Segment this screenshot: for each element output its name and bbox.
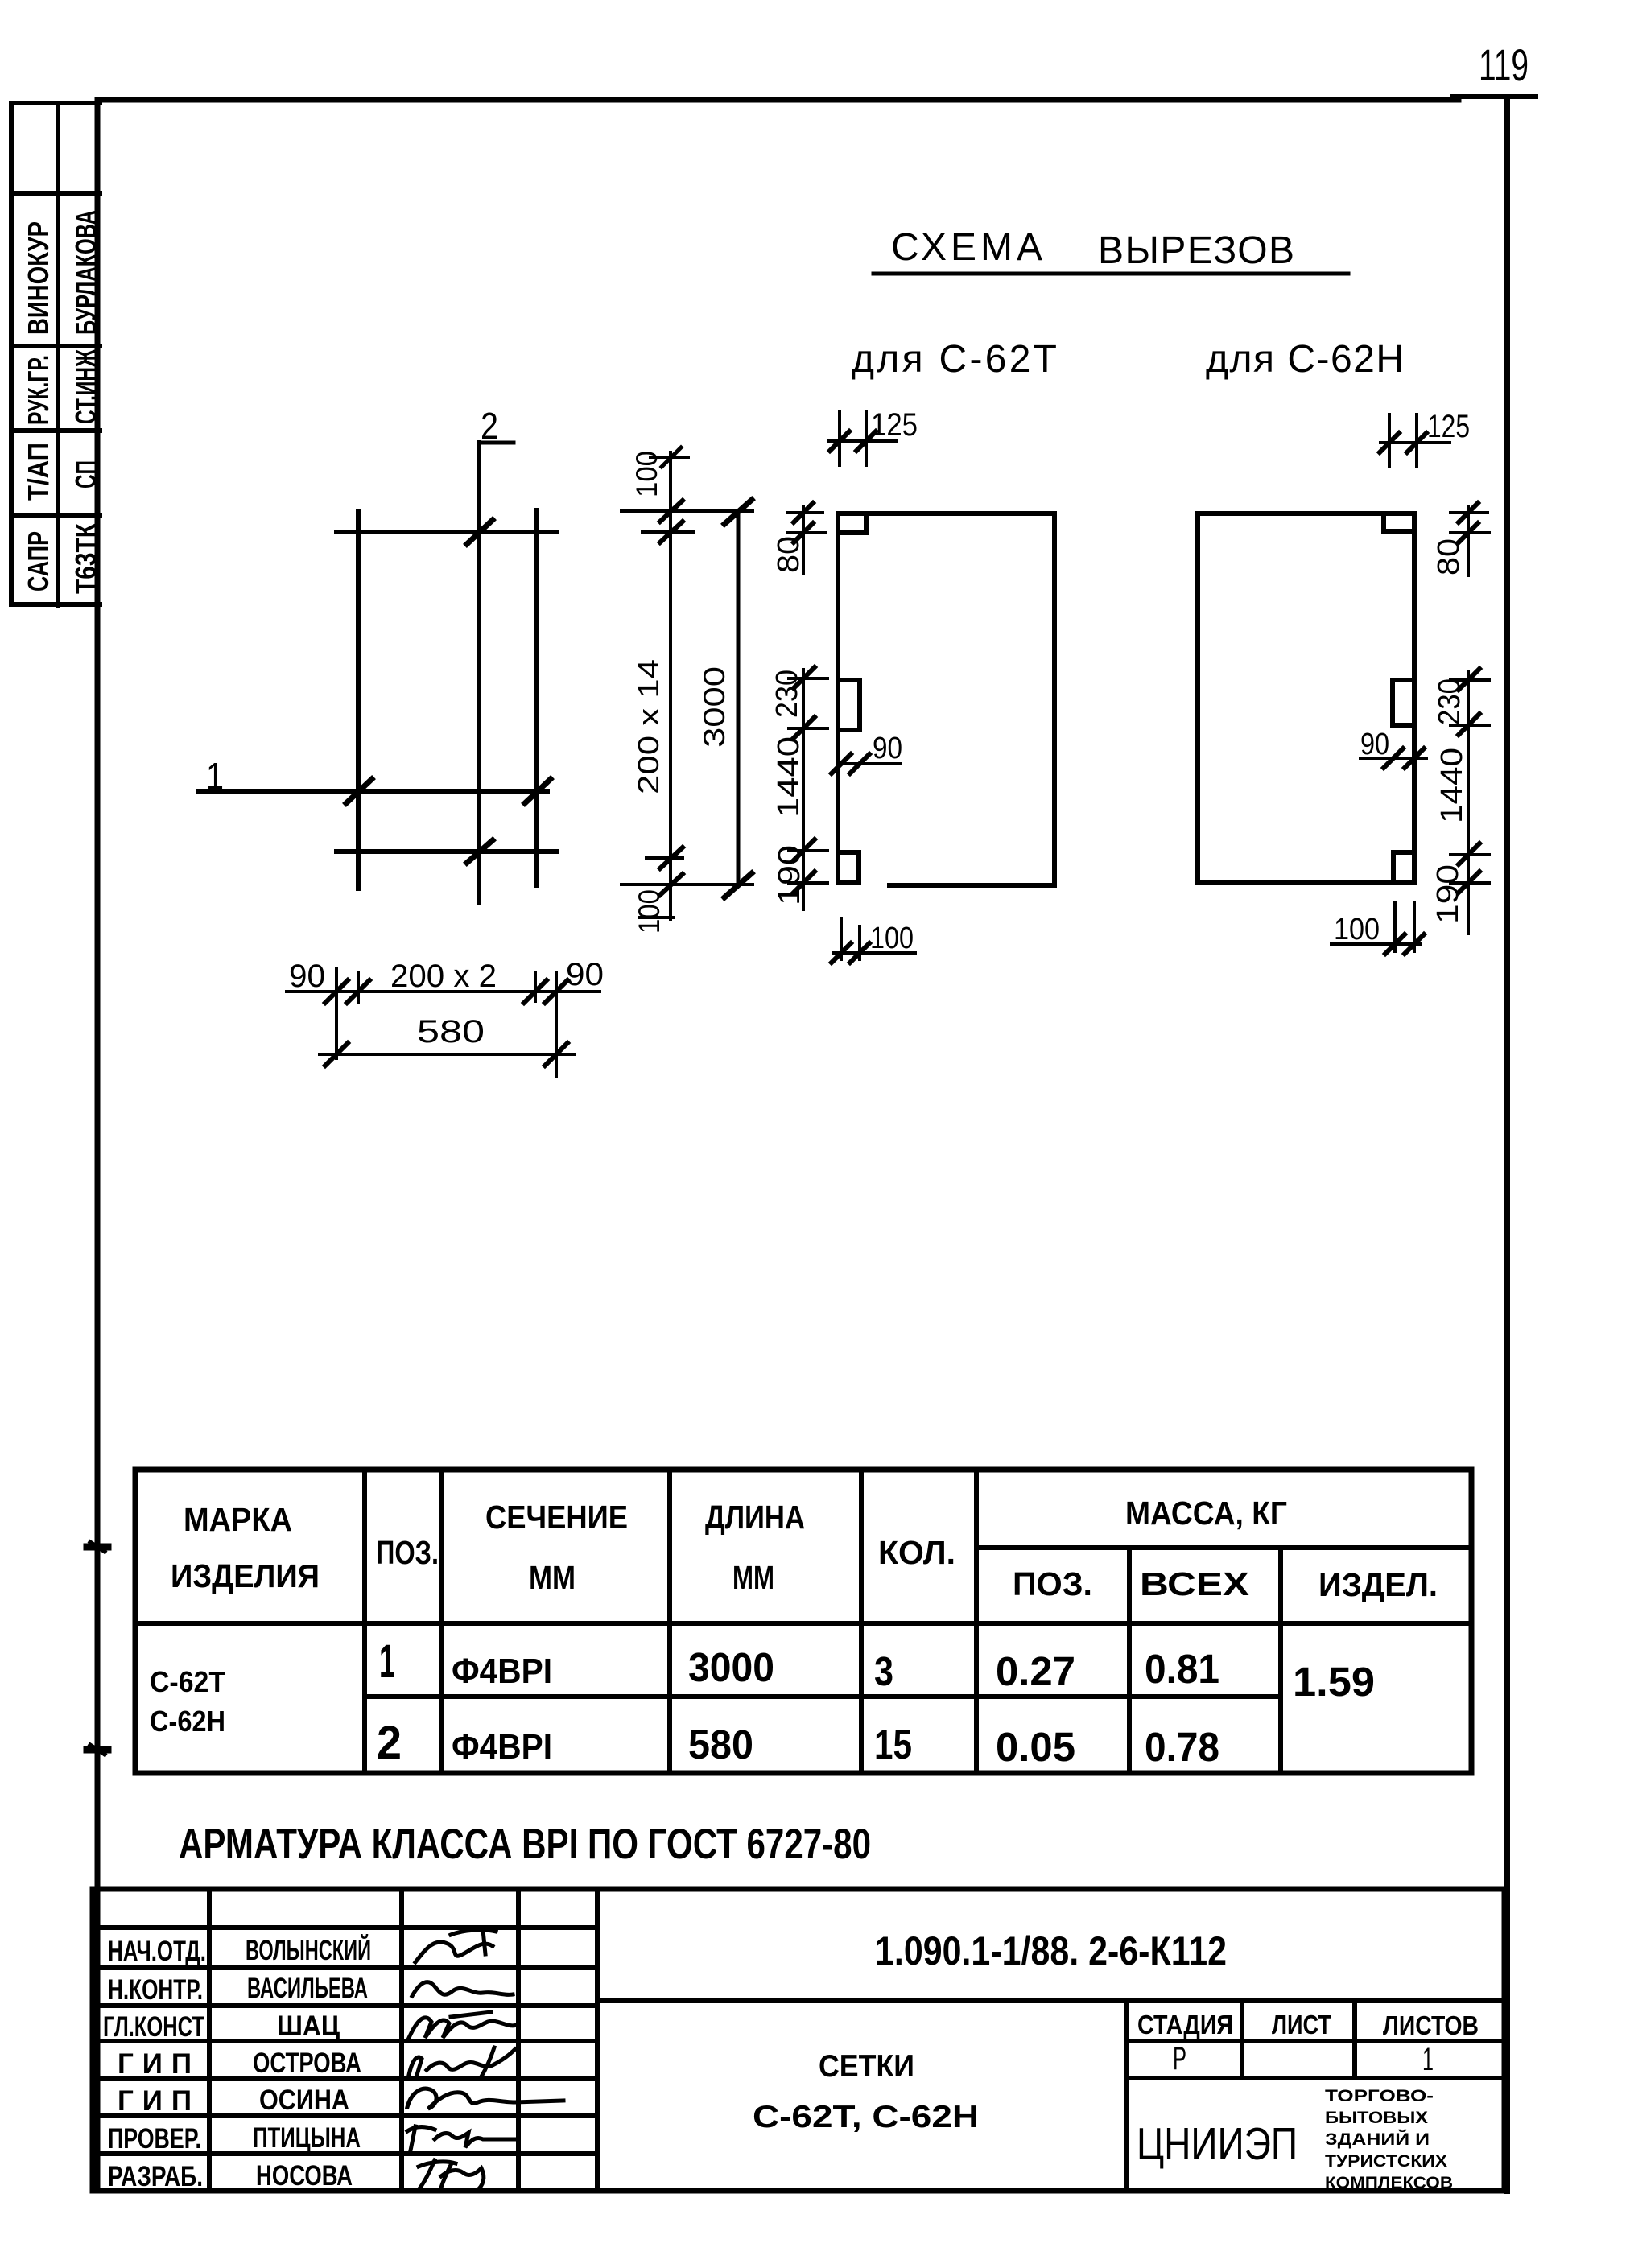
rotated dim label 200 x 14 xyxy=(632,659,665,794)
C-62N rotated label 230 xyxy=(1433,678,1467,725)
dim label 200 x 2 xyxy=(390,959,497,994)
svg-text:ИЗДЕЛ.: ИЗДЕЛ. xyxy=(1318,1566,1438,1603)
svg-text:РУК.ГР.: РУК.ГР. xyxy=(22,355,55,425)
C-62T rotated label 80 xyxy=(772,536,806,573)
signature Vasilyeva xyxy=(412,1982,513,1996)
doc number cell divider xyxy=(597,1998,1504,2003)
C-62N top-right cutout xyxy=(1384,513,1414,531)
mesh wire vertical right (poz 1) xyxy=(534,510,539,885)
extension line left end xyxy=(335,969,338,1058)
stamp text БУРЛАКОВА xyxy=(69,210,102,335)
svg-text:0.81: 0.81 xyxy=(1145,1646,1219,1692)
dim tick 100 top upper xyxy=(650,447,688,467)
cell С-62Т С-62Н xyxy=(150,1665,225,1738)
header ВСЕХ xyxy=(1140,1565,1249,1602)
rotated dim label 3000 xyxy=(698,666,731,748)
fold mark tick upper on left border xyxy=(87,1542,108,1552)
page number 119 xyxy=(1479,39,1529,90)
C-62N dim 100 xyxy=(1331,903,1424,954)
dim extension at first wire xyxy=(642,522,694,542)
svg-text:580: 580 xyxy=(417,1014,485,1049)
svg-text:190: 190 xyxy=(773,845,807,905)
C-62T dim label 90 xyxy=(873,732,902,765)
svg-text:НОСОВА: НОСОВА xyxy=(256,2160,353,2192)
arrow slash 3000 bottom xyxy=(724,873,752,897)
header КОЛ. xyxy=(878,1534,955,1571)
svg-text:Т63ТК: Т63ТК xyxy=(69,522,102,594)
extension line right end xyxy=(555,972,558,1077)
cell Ф4ВРI row2 xyxy=(452,1727,552,1767)
svg-text:1: 1 xyxy=(1422,2042,1434,2077)
svg-text:1440: 1440 xyxy=(1435,748,1469,823)
svg-text:230: 230 xyxy=(1433,678,1467,725)
value Р xyxy=(1173,2041,1186,2076)
svg-text:200 x 2: 200 x 2 xyxy=(390,959,497,994)
mesh wire vertical left (poz 1) xyxy=(356,512,361,889)
dim line 580 xyxy=(320,1053,574,1056)
svg-text:100: 100 xyxy=(1334,913,1380,946)
C-62N rotated label 190 xyxy=(1431,864,1465,924)
stamp text Т/АП xyxy=(22,443,55,501)
svg-text:АРМАТУРА КЛАССА ВРI ПО ГОСТ 6: АРМАТУРА КЛАССА ВРI ПО ГОСТ 6727-80 xyxy=(179,1821,871,1868)
svg-text:СЕЧЕНИЕ: СЕЧЕНИЕ xyxy=(485,1499,628,1536)
frame left border xyxy=(95,100,101,2191)
row ПРОВЕР. ПТИЦЫНА xyxy=(108,2122,361,2155)
svg-text:ДЛИНА: ДЛИНА xyxy=(705,1499,805,1536)
svg-text:ВИНОКУР: ВИНОКУР xyxy=(22,221,55,335)
svg-text:1.59: 1.59 xyxy=(1293,1659,1375,1705)
doc number 1.090.1-1/88. 2-6-К112 xyxy=(875,1928,1227,1973)
cell 1.59 xyxy=(1293,1659,1375,1705)
svg-text:3: 3 xyxy=(874,1648,893,1694)
svg-text:125: 125 xyxy=(871,407,918,443)
svg-text:0.27: 0.27 xyxy=(996,1648,1075,1694)
dim extension at mesh top xyxy=(621,501,753,522)
mesh right dim chain line xyxy=(669,452,672,919)
dim label 90 left xyxy=(289,959,325,994)
C-62T dim 100 xyxy=(832,918,915,963)
dim tick 100 bottom lower xyxy=(640,916,673,919)
svg-text:15: 15 xyxy=(874,1722,912,1767)
C-62T dim label 125 xyxy=(871,407,918,443)
svg-text:90: 90 xyxy=(289,959,325,994)
label 2 xyxy=(479,405,514,447)
signature Nosova xyxy=(419,2160,484,2191)
C-62N bottom-right cutout xyxy=(1393,852,1414,883)
dim label 90 right xyxy=(566,957,604,992)
title block outer frame xyxy=(93,1889,1504,2191)
svg-text:Г И П: Г И П xyxy=(118,2085,192,2117)
header ИЗДЕЛ. xyxy=(1318,1566,1438,1603)
header МАРКА ИЗДЕЛИЯ xyxy=(171,1501,320,1594)
svg-text:Н.КОНТР.: Н.КОНТР. xyxy=(108,1974,203,2006)
C-62T chain ticks xyxy=(787,503,827,893)
row ГИП ОСИНА xyxy=(118,2084,349,2117)
row ГИП ОСТРОВА xyxy=(118,2047,361,2080)
svg-text:С-62Н: С-62Н xyxy=(150,1705,225,1738)
svg-text:НАЧ.ОТД.: НАЧ.ОТД. xyxy=(108,1936,206,1967)
cell 15 xyxy=(874,1722,912,1767)
value 1 xyxy=(1422,2042,1434,2077)
svg-text:СТ.ИНЖ: СТ.ИНЖ xyxy=(69,349,102,424)
label 1 xyxy=(206,755,224,797)
svg-text:С-62Т, С-62Н: С-62Т, С-62Н xyxy=(753,2100,979,2134)
title block row lines xyxy=(93,1928,597,2154)
svg-text:ПРОВЕР.: ПРОВЕР. xyxy=(108,2123,201,2155)
svg-text:ПОЗ.: ПОЗ. xyxy=(1013,1565,1092,1602)
C-62T rotated label 190 xyxy=(773,845,807,905)
svg-text:СХЕМА: СХЕМА xyxy=(891,226,1042,269)
svg-text:125: 125 xyxy=(1427,409,1470,444)
C-62N chain ticks xyxy=(1450,503,1489,893)
svg-text:КОЛ.: КОЛ. xyxy=(878,1534,955,1571)
stamp text САПР xyxy=(22,531,55,592)
svg-text:90: 90 xyxy=(873,732,902,765)
frame top border xyxy=(97,97,1536,100)
C-62N middle-right cutout xyxy=(1393,680,1414,725)
svg-text:0.05: 0.05 xyxy=(996,1724,1075,1770)
note АРМАТУРА КЛАССА ВРI ПО ГОСТ 6727-80 xyxy=(179,1821,871,1868)
subtitle для С-62Т xyxy=(852,338,1057,381)
svg-text:СТАДИЯ: СТАДИЯ xyxy=(1137,2010,1233,2039)
cell 3 xyxy=(874,1648,893,1694)
svg-text:1: 1 xyxy=(206,755,224,797)
svg-text:1.090.1-1/88. 2-6-К112: 1.090.1-1/88. 2-6-К112 xyxy=(875,1928,1227,1973)
C-62T rotated label 230 xyxy=(770,670,804,718)
header ПОЗ. xyxy=(376,1534,439,1571)
svg-text:1: 1 xyxy=(379,1635,395,1688)
svg-text:МАССА, КГ: МАССА, КГ xyxy=(1125,1495,1287,1532)
C-62T left dim chain xyxy=(802,507,805,909)
row Н.КОНТР. ВАСИЛЬЕВА xyxy=(108,1973,368,2006)
header ДЛИНА ММ xyxy=(705,1499,805,1596)
svg-text:для С-62Т: для С-62Т xyxy=(852,338,1057,381)
section mark slash left of line 1 xyxy=(346,779,372,803)
arrow slash 3000 top xyxy=(724,500,752,524)
cell 0.78 xyxy=(1145,1724,1219,1770)
section mark slash at bottom of line 2 xyxy=(467,840,493,863)
svg-text:ШАЦ: ШАЦ xyxy=(277,2010,340,2042)
mesh wire vertical middle / section line 2 xyxy=(477,443,481,903)
C-62T plate outline xyxy=(838,513,1054,885)
svg-text:Г И П: Г И П xyxy=(118,2048,192,2080)
dim line 3000 xyxy=(737,511,741,885)
cell 0.05 xyxy=(996,1724,1075,1770)
row НАЧ.ОТД. ВОЛЫНСКИЙ xyxy=(108,1934,371,1967)
cell 580 xyxy=(688,1722,753,1767)
stamp text СТ.ИНЖ xyxy=(69,349,102,424)
svg-text:ОСИНА: ОСИНА xyxy=(259,2084,349,2116)
frame right border xyxy=(1504,97,1510,2191)
header ЛИСТОВ xyxy=(1383,2010,1479,2040)
stamp text Т63ТК xyxy=(69,522,102,594)
svg-text:ЛИСТОВ: ЛИСТОВ xyxy=(1383,2010,1479,2040)
header СЕЧЕНИЕ ММ xyxy=(485,1499,628,1596)
C-62N plate outline xyxy=(1198,513,1414,883)
svg-text:1440: 1440 xyxy=(772,736,806,818)
стадия/лист/листов grid xyxy=(1127,2001,1504,2078)
specification table grid xyxy=(135,1470,1471,1773)
svg-text:Ф4ВРI: Ф4ВРI xyxy=(452,1652,552,1691)
svg-text:80: 80 xyxy=(1432,538,1466,575)
extension line wire3 xyxy=(534,973,537,1001)
svg-text:ТОРГОВО-: ТОРГОВО- xyxy=(1325,2087,1434,2105)
svg-text:0.78: 0.78 xyxy=(1145,1724,1219,1770)
svg-text:БУРЛАКОВА: БУРЛАКОВА xyxy=(69,210,102,335)
org ЦНИИЭП xyxy=(1137,2118,1298,2170)
rotated dim label 100 top xyxy=(630,451,663,497)
svg-text:80: 80 xyxy=(772,536,806,573)
C-62N dim 90 xyxy=(1360,748,1426,768)
C-62T dim label 100 xyxy=(870,922,914,955)
svg-text:2: 2 xyxy=(377,1717,402,1769)
signature Ostrova xyxy=(409,2047,515,2076)
svg-text:Р: Р xyxy=(1173,2041,1186,2076)
C-62T rotated label 1440 xyxy=(772,736,806,818)
C-62T top-left cutout xyxy=(838,513,866,533)
stamp text РУК.ГР. xyxy=(22,355,55,425)
svg-text:ВЫРЕЗОВ: ВЫРЕЗОВ xyxy=(1098,229,1294,272)
org descriptor small text xyxy=(1325,2087,1453,2192)
svg-text:Т/АП: Т/АП xyxy=(22,443,55,501)
C-62N dim 125 xyxy=(1380,414,1450,467)
svg-text:90: 90 xyxy=(566,957,604,992)
row РАЗРАБ. НОСОВА xyxy=(108,2160,353,2192)
signature Ptitsyna xyxy=(407,2126,515,2150)
subtitle для С-62Н xyxy=(1206,338,1404,381)
C-62N rotated label 1440 xyxy=(1435,748,1469,823)
svg-text:190: 190 xyxy=(1431,864,1465,924)
left margin stamp grid xyxy=(11,103,100,606)
cell 3000 xyxy=(688,1644,774,1690)
svg-text:ММ: ММ xyxy=(529,1559,576,1596)
C-62N right dim chain xyxy=(1467,507,1470,934)
svg-text:ЦНИИЭП: ЦНИИЭП xyxy=(1137,2118,1298,2170)
extension line wire1 xyxy=(357,972,360,1003)
section line 1 xyxy=(198,789,547,794)
svg-text:119: 119 xyxy=(1479,39,1529,90)
C-62T dim 125 xyxy=(828,412,896,465)
section mark slash at top of line 2 xyxy=(467,520,493,544)
signature Volynskiy xyxy=(415,1930,496,1962)
C-62N dim label 90 xyxy=(1360,728,1389,761)
C-62N dim label 125 xyxy=(1427,409,1470,444)
svg-text:САПР: САПР xyxy=(22,531,55,592)
stamp text СП xyxy=(69,460,102,489)
svg-text:ВАСИЛЬЕВА: ВАСИЛЬЕВА xyxy=(247,1973,368,2004)
signature Osina xyxy=(407,2089,563,2109)
C-62T middle-left cutout xyxy=(838,680,860,730)
mesh wire horizontal bottom (poz 2) xyxy=(336,849,556,854)
mesh wire horizontal top (poz 2) xyxy=(336,530,556,534)
svg-text:ВСЕХ: ВСЕХ xyxy=(1140,1565,1249,1602)
svg-text:ПТИЦЫНА: ПТИЦЫНА xyxy=(253,2122,361,2154)
section mark slash right of line 1 xyxy=(525,779,551,803)
cell Ф4ВРI row1 xyxy=(452,1652,552,1691)
svg-text:СП: СП xyxy=(69,460,102,489)
svg-text:ПОЗ.: ПОЗ. xyxy=(376,1534,439,1571)
signature Shats xyxy=(409,2012,517,2038)
cell 0.81 xyxy=(1145,1646,1219,1692)
slash marks on 580 dim xyxy=(325,1043,567,1066)
svg-text:230: 230 xyxy=(770,670,804,718)
svg-text:ММ: ММ xyxy=(732,1559,774,1596)
svg-text:ЛИСТ: ЛИСТ xyxy=(1272,2010,1331,2039)
svg-text:РАЗРАБ.: РАЗРАБ. xyxy=(108,2161,203,2192)
svg-text:90: 90 xyxy=(1360,728,1389,761)
bottom dim line 90 / 200x2 / 90 xyxy=(287,990,600,993)
svg-text:СЕТКИ: СЕТКИ xyxy=(819,2049,914,2084)
svg-text:МАРКА: МАРКА xyxy=(184,1501,292,1538)
dim extension at mesh bottom xyxy=(621,874,753,895)
header ПОЗ. (масса) xyxy=(1013,1565,1092,1602)
svg-text:ТУРИСТСКИХ: ТУРИСТСКИХ xyxy=(1325,2152,1447,2171)
C-62T dim 90 xyxy=(832,754,901,773)
svg-text:100: 100 xyxy=(633,889,666,934)
svg-text:ОСТРОВА: ОСТРОВА xyxy=(253,2047,361,2079)
svg-text:100: 100 xyxy=(630,451,663,497)
row ГЛ.КОНСТ ШАЦ xyxy=(103,2010,340,2043)
C-62N rotated label 80 xyxy=(1432,538,1466,575)
svg-text:ГЛ.КОНСТ: ГЛ.КОНСТ xyxy=(103,2011,204,2043)
svg-text:3000: 3000 xyxy=(698,666,731,748)
svg-text:БЫТОВЫХ: БЫТОВЫХ xyxy=(1325,2109,1428,2127)
header МАССА, КГ xyxy=(1125,1495,1287,1532)
header СТАДИЯ xyxy=(1137,2010,1233,2039)
title СХЕМА ВЫРЕЗОВ xyxy=(873,226,1348,274)
svg-text:для С-62Н: для С-62Н xyxy=(1206,338,1404,381)
title block vertical dividers left part xyxy=(209,1889,597,2191)
dim extension at last wire xyxy=(646,847,683,868)
svg-text:580: 580 xyxy=(688,1722,753,1767)
svg-text:3000: 3000 xyxy=(688,1644,774,1690)
slash marks on dim line xyxy=(325,980,567,1003)
header ЛИСТ xyxy=(1272,2010,1331,2039)
C-62T bottom-left cutout xyxy=(838,852,859,883)
svg-text:ИЗДЕЛИЯ: ИЗДЕЛИЯ xyxy=(171,1557,320,1594)
svg-text:КОМПЛЕКСОВ: КОМПЛЕКСОВ xyxy=(1325,2174,1453,2192)
C-62N dim label 100 xyxy=(1334,913,1380,946)
название cell: СЕТКИ С-62Т, С-62Н xyxy=(1124,2001,1129,2191)
svg-text:Ф4ВРI: Ф4ВРI xyxy=(452,1727,552,1767)
svg-text:ЗДАНИЙ И: ЗДАНИЙ И xyxy=(1325,2130,1430,2149)
svg-text:100: 100 xyxy=(870,922,914,955)
svg-text:ВОЛЫНСКИЙ: ВОЛЫНСКИЙ xyxy=(246,1934,371,1966)
cell poz 1 xyxy=(379,1635,395,1688)
cell 0.27 xyxy=(996,1648,1075,1694)
cell poz 2 xyxy=(377,1717,402,1769)
stamp text ВИНОКУР xyxy=(22,221,55,335)
svg-text:2: 2 xyxy=(481,405,498,447)
dim label 580 xyxy=(417,1014,485,1049)
svg-text:С-62Т: С-62Т xyxy=(150,1665,225,1698)
fold mark tick lower on left border xyxy=(87,1745,108,1755)
svg-text:200 x 14: 200 x 14 xyxy=(632,659,665,794)
rotated dim label 100 bottom xyxy=(633,889,666,934)
